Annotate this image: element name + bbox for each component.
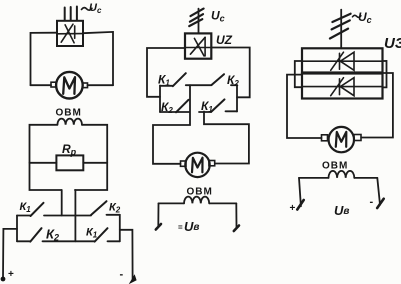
contact K2 bottom row bbox=[17, 240, 30, 242]
wire: box left to left rail bbox=[31, 33, 58, 85]
motor M1 left brush bbox=[51, 82, 56, 87]
motor M2 bbox=[185, 153, 209, 177]
wire motor right to right rail bbox=[88, 84, 114, 86]
wire: UZ right to right rail bbox=[211, 48, 249, 98]
rectifier U1 symbol bbox=[58, 24, 82, 43]
excitation terminal left (middle) bbox=[157, 203, 159, 226]
label ~Uc (left) bbox=[82, 8, 92, 11]
contact K1 (middle bottom-right) bbox=[199, 111, 211, 113]
wire: left side down to motor bbox=[287, 75, 322, 138]
svg-text:+: + bbox=[290, 203, 296, 214]
thyristor VS2 (bottom) bbox=[302, 78, 383, 96]
svg-text:+: + bbox=[8, 269, 14, 280]
contact K1 (middle top-left) bbox=[160, 85, 173, 87]
+ terminal dot bbox=[1, 277, 6, 282]
motor M3 right brush bbox=[354, 135, 361, 141]
field winding coil (right) bbox=[299, 177, 329, 179]
svg-text:ОВМ: ОВМ bbox=[187, 187, 213, 198]
field winding coil (middle) bbox=[159, 202, 185, 204]
rectifier UZ symbol bbox=[186, 37, 211, 56]
svg-text:Rp: Rp bbox=[62, 142, 77, 157]
contact K2 (middle top-right) bbox=[212, 74, 225, 85]
center leg B down to motor loop right bbox=[204, 112, 249, 164]
svg-text:UЗ: UЗ bbox=[384, 35, 401, 52]
excitation terminal right (middle) bbox=[235, 203, 237, 227]
contact K1 bottom row bbox=[95, 228, 108, 241]
middle wire through resistor bbox=[30, 162, 57, 164]
svg-text:К2: К2 bbox=[227, 73, 239, 88]
AC hatch marks (middle) bbox=[189, 9, 203, 27]
- terminal arrow bbox=[130, 276, 136, 284]
motor M1 right brush bbox=[83, 83, 88, 88]
label OBM (middle) bbox=[187, 187, 213, 198]
svg-text:ОВМ: ОВМ bbox=[322, 161, 348, 172]
wire: box right to right rail bbox=[83, 32, 113, 85]
svg-text:К1: К1 bbox=[20, 201, 32, 214]
left bracket bus bbox=[16, 216, 18, 242]
right bracket bus (right circuit) bbox=[383, 61, 387, 88]
svg-text:К2: К2 bbox=[109, 202, 121, 215]
label Rp bbox=[62, 142, 77, 157]
contact K2 (middle bottom-left) bbox=[160, 111, 189, 113]
AC feeder line (middle) bbox=[198, 9, 200, 34]
svg-text:К2: К2 bbox=[46, 227, 59, 243]
label K2 (middle bottom-left) bbox=[161, 100, 173, 115]
contact K1 top row bbox=[17, 215, 31, 217]
svg-text:К1: К1 bbox=[201, 99, 213, 114]
- supply lead (right) bbox=[120, 230, 133, 279]
AC feeder line (right) bbox=[340, 10, 342, 49]
rectifier U1 box bbox=[57, 21, 83, 46]
label Uc (middle) bbox=[211, 9, 225, 24]
node wire between top contacts bbox=[186, 84, 212, 86]
svg-text:Uc: Uc bbox=[211, 9, 225, 24]
AC supply phase lines (3 wires) bbox=[65, 7, 77, 21]
thyristor VS1 (top) bbox=[302, 52, 383, 70]
thyristor module box top bbox=[302, 48, 383, 72]
thyristor module box bottom bbox=[302, 74, 383, 99]
motor M3 left brush bbox=[322, 135, 328, 141]
label K2 (bottom-left contact) bbox=[46, 227, 59, 243]
label K1 (bottom-right contact) bbox=[86, 227, 98, 240]
svg-text:=: = bbox=[178, 223, 183, 232]
label UZ bbox=[216, 33, 233, 47]
+ excitation terminal (right circuit) bbox=[299, 178, 301, 206]
svg-text:Uc: Uc bbox=[358, 10, 372, 25]
leg from Rp box to K network (right leg) bbox=[74, 190, 76, 241]
- excitation terminal (right circuit) bbox=[377, 178, 380, 205]
svg-text:К1: К1 bbox=[86, 227, 98, 240]
svg-text:ОВМ: ОВМ bbox=[56, 108, 82, 119]
svg-text:-: - bbox=[370, 196, 374, 208]
svg-text:UZ: UZ bbox=[216, 33, 233, 47]
right bracket bus bbox=[119, 215, 121, 242]
contact K2 top row bbox=[91, 201, 107, 215]
svg-text:Uc: Uc bbox=[89, 2, 102, 15]
label U3 (right converter) bbox=[384, 35, 401, 52]
label K1 (top-left contact) bbox=[20, 201, 32, 214]
left bracket bus (right circuit) bbox=[295, 61, 302, 87]
label - bbox=[120, 269, 124, 281]
field winding coil (left) bbox=[57, 119, 82, 125]
Rp box outline bbox=[30, 125, 62, 190]
svg-text:-: - bbox=[120, 269, 124, 281]
motor M2 right brush bbox=[209, 161, 215, 166]
label K2 (middle top-right) bbox=[227, 73, 239, 88]
motor M3 bbox=[329, 127, 354, 152]
svg-text:Uв: Uв bbox=[334, 203, 349, 218]
label K1 (middle top-left) bbox=[158, 73, 170, 88]
label K1 (middle bottom-right) bbox=[201, 99, 213, 114]
rectifier UZ box bbox=[185, 33, 211, 58]
label K2 (top-right contact) bbox=[109, 202, 121, 215]
label OBM (right) bbox=[322, 161, 348, 172]
right box edge (contact frame) bbox=[236, 85, 238, 112]
left box edge (contact frame) bbox=[159, 86, 161, 113]
label =Uv (middle) bbox=[178, 219, 199, 234]
center leg A down to motor loop left bbox=[153, 85, 190, 164]
wire: UZ left to left rail bbox=[147, 48, 185, 97]
label ~Uc (right) bbox=[353, 15, 361, 17]
+ supply lead (left) bbox=[3, 229, 17, 278]
AC hatch marks (right) bbox=[330, 14, 351, 39]
resistor Rp bbox=[56, 155, 83, 170]
wire to motor left bbox=[31, 84, 52, 86]
label Uv (right) bbox=[334, 203, 349, 218]
svg-text:Uв: Uв bbox=[184, 219, 199, 234]
motor M1 bbox=[56, 72, 83, 99]
motor M2 left brush bbox=[181, 161, 187, 166]
label + bbox=[8, 269, 14, 280]
wire: right side down to motor bbox=[361, 73, 393, 138]
label OBM (left field winding) bbox=[56, 108, 82, 119]
leg from Rp box to K network (left leg) bbox=[61, 190, 63, 216]
